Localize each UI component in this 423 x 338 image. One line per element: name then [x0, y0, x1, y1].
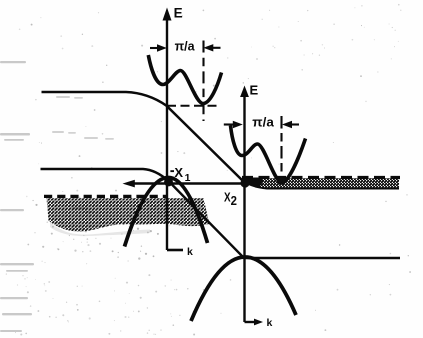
- svg-text:X: X: [174, 165, 183, 180]
- -X1 label: [170, 170, 174, 172]
- svg-text:k: k: [267, 317, 273, 329]
- dashed vertical zone-boundary line 1: [202, 41, 204, 122]
- pi/a arrow right 1: [210, 47, 221, 49]
- k axis 2 arrowhead: [254, 319, 263, 326]
- right band bottom edge: [244, 181, 399, 189]
- valence E-k parabola 1: [125, 178, 208, 247]
- right Fermi level dashed line: [242, 176, 400, 179]
- valence band edge (left flat, diagonal X1 to lower right flat): [41, 169, 401, 258]
- dashed horizontal band-minimum line 1: [167, 105, 218, 107]
- electron blob at conduction minimum 2: [277, 177, 286, 184]
- pi/a arrow right 2: [288, 123, 300, 125]
- photocopy ghost streaks: [0, 61, 34, 332]
- E axis 1 arrowhead: [163, 8, 172, 21]
- X1 node blob: [164, 178, 173, 187]
- svg-text:π/a: π/a: [175, 39, 196, 54]
- E axis 2 arrowhead: [240, 86, 249, 98]
- left filled-states hatched region: [47, 198, 210, 231]
- pi/a arrow left 2: [224, 123, 235, 125]
- conduction E-k curve 2 (camel/W shape): [231, 126, 306, 183]
- svg-text:π/a: π/a: [252, 115, 275, 129]
- valence E-k parabola 2: [191, 257, 296, 321]
- X2 node blob: [240, 178, 249, 187]
- pi/a arrow left 1: [150, 47, 160, 49]
- k axis 1: [167, 249, 183, 252]
- left Fermi level dashed line: [44, 195, 168, 198]
- conduction E-k curve 1 (camel/W shape): [148, 55, 221, 104]
- k axis 2: [245, 321, 258, 323]
- svg-text:k: k: [187, 246, 193, 258]
- svg-text:1: 1: [185, 172, 191, 184]
- conduction band edge (left flat then diagonal to X2): [42, 92, 245, 183]
- svg-text:2: 2: [231, 194, 237, 208]
- svg-text:E: E: [174, 6, 183, 21]
- svg-text:E: E: [250, 83, 259, 98]
- E axis 2: [243, 93, 245, 322]
- right band dark left end: [243, 178, 263, 188]
- momentum arrow from X2 to -X1: [131, 182, 244, 185]
- E axis 1: [166, 17, 168, 250]
- right degenerate band hatched region: [244, 178, 399, 188]
- dashed vertical zone-boundary line 2: [280, 116, 282, 172]
- gray smear under hatch: [50, 222, 150, 236]
